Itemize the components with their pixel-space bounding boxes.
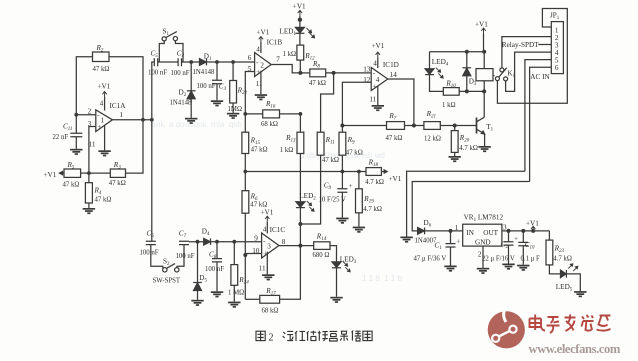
svg-text:47 kΩ: 47 kΩ xyxy=(250,202,267,209)
svg-text:R23: R23 xyxy=(554,245,565,255)
svg-text:13: 13 xyxy=(363,65,371,73)
capacitor C10 xyxy=(522,231,524,242)
wire relay coil bottom to T1 collector xyxy=(483,91,485,117)
reference rail xyxy=(243,170,247,174)
svg-text:C9: C9 xyxy=(324,181,332,191)
ground below C2 xyxy=(502,264,514,270)
svg-text:100 nF: 100 nF xyxy=(148,70,167,77)
svg-text:68 kΩ: 68 kΩ xyxy=(261,121,278,128)
svg-text:11: 11 xyxy=(259,264,266,272)
capacitor C9 xyxy=(341,172,343,189)
svg-text:D6: D6 xyxy=(424,219,432,229)
wire R3 left xyxy=(89,172,110,174)
svg-text:R20: R20 xyxy=(459,134,470,144)
svg-text:C6: C6 xyxy=(147,230,155,240)
svg-text:R21: R21 xyxy=(426,110,436,120)
svg-text:12 kΩ: 12 kΩ xyxy=(424,135,441,142)
wire IC1B output xyxy=(271,65,300,73)
ground below D2 xyxy=(185,118,197,124)
svg-text:1: 1 xyxy=(455,224,459,232)
switch S1 xyxy=(159,41,164,62)
resistor R8 xyxy=(300,72,309,74)
svg-text:2: 2 xyxy=(260,62,264,70)
node pin10/R6/R17 xyxy=(243,253,247,257)
top rail of relay section xyxy=(430,51,485,53)
svg-text:1: 1 xyxy=(120,111,124,119)
wire AC line A to ground xyxy=(407,171,525,236)
svg-text:R11: R11 xyxy=(325,136,335,146)
svg-text:7: 7 xyxy=(276,56,280,64)
resistor R20 xyxy=(454,126,456,131)
resistor R18 xyxy=(366,168,381,176)
ground below C9 xyxy=(336,218,348,224)
svg-text:100 nF: 100 nF xyxy=(140,250,159,257)
svg-text:R8: R8 xyxy=(312,60,320,70)
svg-text:+V1: +V1 xyxy=(44,171,57,179)
svg-text:6: 6 xyxy=(248,54,252,62)
diode D2 xyxy=(190,62,192,91)
diode D4 xyxy=(204,238,211,245)
svg-text:+V1: +V1 xyxy=(98,82,111,90)
svg-text:1N4148: 1N4148 xyxy=(170,100,193,107)
ground below C10 xyxy=(517,265,529,271)
ground AC neutral xyxy=(400,237,412,243)
capacitor C11 xyxy=(75,115,77,133)
svg-text:SW-SPST: SW-SPST xyxy=(153,278,181,285)
pin11 stub of IC1D xyxy=(377,86,379,105)
ground below R19 xyxy=(353,227,365,233)
wire pin2 xyxy=(76,114,96,116)
svg-text:sok a dortbook rnla qsb: sok a dortbook rnla qsb xyxy=(152,120,242,129)
node IC1B output xyxy=(298,71,302,75)
wire pin10 stub xyxy=(245,253,261,255)
svg-text:+V1: +V1 xyxy=(257,29,270,37)
ground below IC1D xyxy=(372,105,384,111)
wire JP1 pin6 AC line xyxy=(530,67,552,181)
resistor R12 xyxy=(297,45,304,60)
svg-text:T1: T1 xyxy=(486,123,493,133)
svg-text:+: + xyxy=(456,237,460,245)
regulator GND pin2 xyxy=(482,246,484,268)
wire IC1D output xyxy=(388,79,414,126)
ground below IC1A xyxy=(98,150,110,156)
pin11 stub of IC1B xyxy=(260,71,262,94)
svg-text:R19: R19 xyxy=(363,195,374,205)
svg-text:+V1: +V1 xyxy=(293,3,306,11)
svg-text:100 nF: 100 nF xyxy=(176,253,195,260)
ground below D5 xyxy=(191,300,203,306)
svg-text:IN: IN xyxy=(466,229,474,237)
ground below R22 xyxy=(227,113,239,119)
svg-text:LED3: LED3 xyxy=(340,255,357,265)
svg-text:0.1 μ F: 0.1 μ F xyxy=(521,256,541,263)
resistor R23 xyxy=(548,231,550,240)
svg-text:4.7 kΩ: 4.7 kΩ xyxy=(553,256,572,263)
svg-text:11: 11 xyxy=(89,141,96,149)
wire R5 to node xyxy=(81,172,89,174)
svg-text:47 kΩ: 47 kΩ xyxy=(93,66,110,73)
svg-text:R24: R24 xyxy=(238,276,249,286)
logo: elecfans red disc icon xyxy=(488,307,525,349)
wire R2 left to pin2 node xyxy=(76,57,92,115)
svg-text:680 Ω: 680 Ω xyxy=(313,252,330,259)
svg-text:1 kΩ: 1 kΩ xyxy=(280,147,294,154)
resistor R6 xyxy=(242,191,249,214)
op-amp IC1C xyxy=(262,233,279,258)
node output feedback xyxy=(141,118,145,122)
capacitor C4 xyxy=(178,58,181,66)
ground below LED3 xyxy=(330,297,342,303)
resistor R19 xyxy=(358,172,360,189)
wire D1 to IC1B pin6 xyxy=(207,61,255,63)
svg-text:47 kΩ: 47 kΩ xyxy=(322,157,339,164)
svg-text:LED2: LED2 xyxy=(299,192,316,202)
svg-text:11: 11 xyxy=(256,80,263,88)
svg-text:4: 4 xyxy=(373,59,377,67)
svg-text:IC1C: IC1C xyxy=(270,226,286,234)
svg-text:OUT: OUT xyxy=(483,229,498,237)
resistor R9 xyxy=(341,126,343,133)
svg-text:10 F/25 V: 10 F/25 V xyxy=(319,197,347,204)
svg-text:22 nF: 22 nF xyxy=(53,134,69,141)
pin11 stub and label of IC1A xyxy=(104,126,106,151)
connector JP1 xyxy=(551,22,563,74)
svg-text:1MΩ: 1MΩ xyxy=(228,106,243,113)
svg-text:2: 2 xyxy=(88,107,92,115)
svg-text:+: + xyxy=(514,235,518,243)
node pin13/R11 xyxy=(332,71,336,75)
node D5 xyxy=(196,240,200,244)
wire regulator output rail xyxy=(502,230,550,232)
svg-text:AC IN: AC IN xyxy=(530,73,550,81)
svg-text:C11: C11 xyxy=(63,123,72,133)
op-amp IC1A xyxy=(96,110,113,132)
svg-text:47 kΩ: 47 kΩ xyxy=(95,197,112,204)
svg-text:Relay-SPDT: Relay-SPDT xyxy=(502,41,539,49)
svg-text:11: 11 xyxy=(369,96,376,104)
wire common to JP1 pin1 xyxy=(497,9,567,104)
resistor R21 xyxy=(424,122,440,130)
wire AC line B to D6 xyxy=(412,182,529,231)
wire D6 to regulator xyxy=(425,230,463,232)
svg-text:1 MΩ: 1 MΩ xyxy=(228,289,244,296)
resistor R22 xyxy=(231,60,235,64)
svg-text:+: + xyxy=(263,250,267,258)
relay K1 coil xyxy=(483,52,485,69)
svg-text:IC1D: IC1D xyxy=(383,61,399,69)
ground below R4 xyxy=(83,208,95,214)
svg-text:1N4148: 1N4148 xyxy=(193,69,216,76)
wire R3 right up to output xyxy=(126,120,144,173)
svg-text:R14: R14 xyxy=(316,232,327,242)
svg-text:4: 4 xyxy=(376,76,380,84)
switch S2 SW-SPST xyxy=(151,245,163,268)
ground below regulator xyxy=(477,268,489,274)
wire output node down to C6 xyxy=(151,120,153,241)
capacitor C5 xyxy=(154,58,157,66)
transistor T1 xyxy=(476,118,478,134)
ground below C8 xyxy=(211,291,223,297)
resistor R10 xyxy=(443,88,459,96)
node R5/R4/R3 xyxy=(87,171,91,175)
op-amp IC1B xyxy=(255,53,272,77)
resistor R17 xyxy=(245,298,259,300)
svg-text:1 1 8 1 1 b: 1 1 8 1 1 b xyxy=(362,274,403,283)
wire R2 right to output node xyxy=(109,57,143,120)
svg-text:C7: C7 xyxy=(179,230,187,240)
svg-text:4.7 kΩ: 4.7 kΩ xyxy=(459,145,478,152)
svg-text:C1: C1 xyxy=(435,241,442,251)
svg-text:R9: R9 xyxy=(347,136,355,146)
svg-text:100 nF: 100 nF xyxy=(197,83,216,90)
wire output node up to C5 xyxy=(152,62,154,120)
diode D6 xyxy=(418,228,425,235)
caption: 图 2 液位控制器原理图 xyxy=(256,331,372,344)
svg-text:R15: R15 xyxy=(250,137,261,147)
svg-text:4.7 kΩ: 4.7 kΩ xyxy=(365,179,384,186)
svg-text:IC1A: IC1A xyxy=(110,102,127,110)
capacitor C3 xyxy=(215,60,219,64)
wire top throw to JP1 pin2 xyxy=(502,37,551,68)
ground below IC1C xyxy=(262,274,274,280)
resistor R15 xyxy=(242,132,249,153)
ground below R24 xyxy=(228,302,240,308)
svg-text:8: 8 xyxy=(282,238,286,246)
diode D3 xyxy=(465,89,469,93)
node pin5/R16 xyxy=(243,112,247,116)
resistor R14 xyxy=(314,242,330,250)
svg-text:1 kΩ: 1 kΩ xyxy=(442,102,456,109)
svg-text:100 nF: 100 nF xyxy=(205,266,224,273)
svg-text:47 kΩ: 47 kΩ xyxy=(251,147,268,154)
capacitor C8 xyxy=(215,240,219,244)
resistor R16 xyxy=(245,113,262,115)
node output to C6 xyxy=(150,118,154,122)
regulator VR1 LM7812 xyxy=(463,224,502,246)
svg-text:100 nF: 100 nF xyxy=(171,70,190,77)
resistor R24 1M xyxy=(232,240,236,244)
resistor R13 xyxy=(299,114,301,132)
resistor R11 xyxy=(317,132,324,155)
resistor R2 xyxy=(93,52,110,62)
wire pin3 down xyxy=(89,127,96,183)
svg-text:D4: D4 xyxy=(202,228,210,238)
svg-text:C5: C5 xyxy=(151,50,159,60)
svg-text:C3: C3 xyxy=(219,83,227,93)
svg-text:LED1: LED1 xyxy=(280,28,297,38)
svg-text:47 μ F/36 V: 47 μ F/36 V xyxy=(414,256,447,263)
wire jog to R11 xyxy=(321,73,334,132)
svg-text:47 kΩ: 47 kΩ xyxy=(63,182,80,189)
svg-text:47 kΩ: 47 kΩ xyxy=(309,80,326,87)
svg-text:IC1B: IC1B xyxy=(267,38,283,46)
svg-text:C8: C8 xyxy=(209,250,217,260)
LED LED3 xyxy=(330,246,337,262)
svg-text:GND: GND xyxy=(475,238,491,246)
svg-text:+V1: +V1 xyxy=(389,175,402,183)
wire pin12 down to N2 xyxy=(342,82,371,125)
ground below R20 xyxy=(449,156,461,162)
svg-text:S1: S1 xyxy=(163,28,170,38)
svg-text:47 kΩ: 47 kΩ xyxy=(386,135,403,142)
svg-text:LED5: LED5 xyxy=(556,283,573,293)
svg-text:3: 3 xyxy=(267,243,271,251)
svg-text:1 kΩ: 1 kΩ xyxy=(283,51,297,58)
resistor R4 xyxy=(85,183,92,203)
node R16 right xyxy=(299,112,303,116)
resistor R3 xyxy=(110,169,125,177)
svg-text:+V1: +V1 xyxy=(261,209,274,217)
svg-text:2: 2 xyxy=(269,333,274,344)
ground below IC1B xyxy=(255,94,267,100)
pin11 stub of IC1C xyxy=(266,252,268,275)
diode D1 xyxy=(200,59,207,66)
wire JP1 pin5 AC line xyxy=(525,60,551,172)
svg-text:D1: D1 xyxy=(204,53,212,63)
svg-text:4: 4 xyxy=(100,100,104,108)
ground below C3 xyxy=(211,100,223,106)
svg-text:6: 6 xyxy=(555,64,559,72)
ground below LED5 xyxy=(574,291,586,297)
svg-text:VR1 LM7812: VR1 LM7812 xyxy=(464,214,504,224)
node rail/R19 xyxy=(357,170,361,174)
svg-text:1: 1 xyxy=(101,117,105,125)
logo text: 电子发烧友 xyxy=(530,315,611,334)
svg-text:R4: R4 xyxy=(94,187,102,197)
capacitor C1 xyxy=(450,231,452,243)
svg-text:4.7 kΩ: 4.7 kΩ xyxy=(363,206,382,213)
svg-text:47 kΩ: 47 kΩ xyxy=(346,150,363,157)
svg-text:D2: D2 xyxy=(179,89,187,99)
svg-text:R16: R16 xyxy=(265,100,276,110)
terminal +V1 at R18 xyxy=(381,170,387,173)
svg-text:22 μ F/16 V: 22 μ F/16 V xyxy=(482,256,515,263)
node N2 pin12/R7/R9 xyxy=(340,124,344,128)
svg-text:R7: R7 xyxy=(388,112,396,122)
relay K1 contacts xyxy=(493,75,495,77)
svg-text:+V1: +V1 xyxy=(526,219,539,227)
svg-text:+V1: +V1 xyxy=(475,21,488,29)
node on IC1C output xyxy=(298,244,302,248)
diode D5 xyxy=(197,242,199,283)
node rail/C9 xyxy=(341,170,345,174)
wire C5 to C4 xyxy=(158,61,178,63)
node pin2 xyxy=(74,113,78,117)
capacitor C7 xyxy=(179,241,189,244)
svg-text:4: 4 xyxy=(256,45,260,53)
wire IC1C output xyxy=(279,245,314,247)
LED LED4 xyxy=(429,52,431,69)
capacitor C2 xyxy=(508,231,510,242)
node base/R20 xyxy=(453,124,457,128)
svg-text:S2: S2 xyxy=(163,258,170,268)
svg-text:LED4: LED4 xyxy=(432,58,449,68)
ground below C11 xyxy=(70,149,82,155)
node IC1D out / R7 / R21 xyxy=(412,124,416,128)
svg-text:C10: C10 xyxy=(525,241,535,251)
wire R11 bottom to LED2 node xyxy=(300,155,320,224)
svg-text:4: 4 xyxy=(263,225,267,233)
op-amp IC1D xyxy=(371,68,388,91)
resistor R7 xyxy=(342,125,386,127)
node LED2 bottom xyxy=(298,222,302,226)
svg-text:JP1: JP1 xyxy=(550,12,560,22)
resistor R5 xyxy=(64,169,81,177)
wire bottom throw to JP1 pin4 xyxy=(506,52,552,91)
wire C4 to D1 xyxy=(182,61,200,63)
ground below C1 xyxy=(444,266,456,272)
wire pin5 down xyxy=(245,72,254,133)
svg-text:R13: R13 xyxy=(285,134,296,144)
wire C7 to IC1C pin9 xyxy=(189,241,262,243)
svg-text:14: 14 xyxy=(390,71,398,79)
svg-text:47 kΩ: 47 kΩ xyxy=(109,180,126,187)
svg-text:68 kΩ: 68 kΩ xyxy=(262,308,279,315)
svg-text:3: 3 xyxy=(503,223,507,231)
svg-text:www.elecfans.com: www.elecfans.com xyxy=(529,342,621,356)
capacitor C6 xyxy=(146,241,156,244)
wire IC1A output xyxy=(112,119,151,121)
svg-text:9: 9 xyxy=(254,234,258,242)
LED LED5 xyxy=(561,270,567,278)
node D2 junction xyxy=(189,60,193,64)
svg-text:+V1: +V1 xyxy=(372,42,385,50)
ground below T1 emitter xyxy=(478,146,490,152)
svg-text:+: + xyxy=(349,182,353,190)
LED LED2 xyxy=(299,154,301,202)
